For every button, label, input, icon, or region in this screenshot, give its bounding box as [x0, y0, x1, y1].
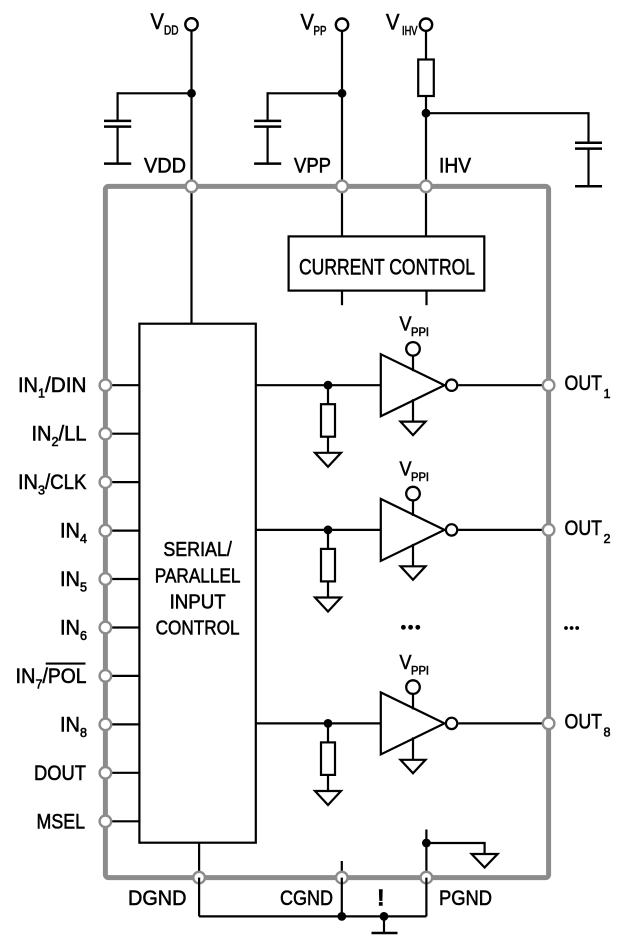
svg-text:IN: IN — [60, 713, 80, 736]
wire PGND branch to ground — [426, 843, 484, 854]
capacitor C1 (VDD decoupling) — [104, 121, 131, 127]
wire current-control output stub 2 — [425, 291, 427, 306]
ground external bar — [372, 932, 398, 935]
terminal pin IN2/LL — [100, 428, 112, 440]
wire DGND external down — [198, 878, 200, 917]
label pin IN6 — [60, 617, 87, 644]
op-amp driver A2 — [381, 499, 445, 561]
svg-text:V: V — [151, 9, 165, 34]
wire C1 top lead — [116, 92, 118, 120]
terminal OUT8 — [543, 718, 555, 730]
supply terminal V_PPI channel 1 — [406, 342, 420, 356]
svg-text:IN: IN — [16, 665, 36, 688]
terminal pin IN7/POL — [100, 670, 112, 682]
label SERIAL/PARALLEL INPUT CONTROL — [155, 539, 241, 640]
ellipsis outer outputs — [564, 626, 579, 630]
terminal OUT2 — [543, 524, 555, 536]
wire C2 bottom lead — [267, 127, 269, 164]
inverting bubble A1 — [446, 380, 457, 391]
ground PGND internal — [472, 854, 498, 868]
svg-text:7: 7 — [36, 677, 43, 691]
wire C1 bottom lead — [116, 127, 118, 164]
wire V_IHV to R1 — [425, 31, 427, 61]
node VPP-cap junction — [338, 89, 347, 98]
svg-text:IN: IN — [18, 374, 38, 397]
ground op-amp A1 — [401, 422, 426, 436]
ellipsis inner channels — [401, 625, 420, 630]
wire input-control block to DGND — [198, 843, 200, 878]
wire resistor R4 top lead — [327, 723, 329, 742]
wire V_PPI stub channel 3 — [412, 694, 414, 709]
terminal pin MSEL — [100, 816, 112, 828]
label OUT1 — [565, 372, 611, 401]
wire PGND internal — [425, 830, 427, 878]
label V_DD — [151, 9, 179, 38]
label OUT8 — [565, 710, 611, 739]
block U2 CURRENT CONTROL — [289, 236, 485, 290]
terminal pin VDD on boundary — [186, 181, 198, 193]
node channel 3 resistor tap — [324, 719, 333, 728]
wire pin DOUT stub — [105, 772, 139, 774]
ground op-amp A3 — [401, 760, 426, 774]
capacitor C2 (VPP decoupling) — [254, 121, 281, 127]
wire V_PPI stub channel 1 — [412, 356, 414, 371]
svg-text:8: 8 — [604, 725, 611, 739]
terminal OUT1 — [543, 379, 555, 391]
svg-text:PPI: PPI — [411, 665, 429, 677]
svg-text:IN: IN — [60, 568, 80, 591]
label V_PP — [301, 9, 327, 38]
svg-text:IN: IN — [60, 617, 80, 640]
IC boundary — [105, 186, 548, 877]
wire pin IN7/POL stub — [105, 675, 139, 677]
supply terminal VIHV (V_IHV) — [420, 19, 432, 31]
svg-text:DGND: DGND — [128, 887, 187, 910]
label V_IHV — [386, 9, 418, 38]
wire pin IN8 stub — [105, 723, 139, 725]
terminal PGND — [421, 872, 433, 884]
wire external ground bus — [199, 915, 426, 917]
wire channel 1 input — [256, 384, 382, 386]
svg-text:OUT: OUT — [565, 710, 603, 733]
svg-text:CGND: CGND — [280, 887, 333, 910]
wire to C1 — [118, 92, 192, 94]
wire resistor R3 bottom lead — [327, 581, 329, 597]
wire CGND internal stub — [341, 861, 343, 878]
wire pin IN2/LL stub — [105, 433, 139, 435]
wire pin MSEL stub — [105, 820, 139, 822]
label pin IN3/CLK — [18, 471, 87, 498]
label pin DOUT — [34, 762, 86, 785]
svg-text:INPUT: INPUT — [170, 592, 226, 614]
wire op-amp A1 ground stub — [412, 399, 414, 421]
ground external stem — [383, 916, 385, 933]
wire channel 1 output — [458, 384, 548, 386]
svg-text:IN: IN — [32, 423, 52, 446]
ground bar C1 — [104, 162, 131, 165]
svg-text:SERIAL/: SERIAL/ — [163, 539, 232, 561]
wire channel 2 output — [458, 529, 548, 531]
terminal pin DOUT — [100, 767, 112, 779]
wire resistor R2 top lead — [327, 385, 329, 404]
svg-text:DD: DD — [164, 24, 179, 38]
label OUT2 — [565, 517, 611, 546]
inverting bubble A3 — [446, 718, 457, 729]
wire R1 to IHV pin — [425, 96, 427, 186]
svg-text:8: 8 — [80, 726, 87, 740]
svg-text:3: 3 — [38, 484, 45, 498]
wire channel 3 output — [458, 722, 548, 724]
wire pin IN4 stub — [105, 529, 139, 531]
wire current-control output stub 1 — [341, 291, 343, 306]
svg-text:2: 2 — [604, 532, 611, 546]
svg-text:1: 1 — [604, 387, 611, 401]
node VDD-cap junction — [187, 89, 196, 98]
svg-text:CONTROL: CONTROL — [156, 618, 240, 640]
svg-text:PPI: PPI — [411, 472, 429, 484]
svg-text:PP: PP — [314, 24, 327, 38]
supply terminal VDD (V_DD) — [185, 18, 197, 30]
svg-text:CURRENT CONTROL: CURRENT CONTROL — [299, 255, 475, 280]
wire C2 top lead — [267, 92, 269, 120]
terminal pin IHV on boundary — [420, 181, 432, 193]
svg-text:!: ! — [377, 885, 385, 911]
label pin IN8 — [60, 713, 87, 740]
terminal pin IN3/CLK — [100, 476, 112, 488]
terminal pin IN6 — [100, 622, 112, 634]
ground bar C2 — [254, 162, 281, 165]
wire channel 2 input — [256, 529, 382, 531]
capacitor C3 (IHV reservoir) — [575, 143, 602, 149]
terminal pin IN1/DIN — [100, 379, 112, 391]
label pin IN7/POL — [16, 664, 87, 692]
ground channel 3 resistor — [315, 791, 341, 805]
terminal DGND — [193, 872, 205, 884]
label pin MSEL — [37, 810, 86, 833]
svg-text:PARALLEL: PARALLEL — [155, 566, 241, 588]
svg-text:2: 2 — [52, 435, 59, 449]
label V_PPI channel 2 — [400, 458, 430, 484]
op-amp driver A1 — [381, 354, 445, 416]
svg-text:/DIN: /DIN — [45, 374, 87, 397]
wire to C3 — [426, 113, 589, 142]
wire pin IN6 stub — [105, 626, 139, 628]
wire PGND external down — [425, 878, 427, 917]
svg-text:/POL: /POL — [43, 665, 87, 688]
svg-text:IHV: IHV — [439, 155, 471, 178]
wire C3 bottom lead — [587, 149, 589, 187]
block U1 SERIAL/PARALLEL INPUT CONTROL — [139, 324, 255, 843]
wire to C2 — [268, 92, 342, 94]
node CGND on ground bus — [337, 912, 346, 921]
label pin IN2/LL — [32, 423, 87, 450]
resistor R3 (pull-down) — [321, 549, 335, 582]
wire pin IN3/CLK stub — [105, 481, 139, 483]
node IHV-cap junction — [422, 109, 431, 118]
svg-text:DOUT: DOUT — [34, 762, 86, 785]
net VDD supply wire — [190, 31, 192, 187]
supply terminal V_PPI channel 2 — [406, 487, 420, 501]
wire channel 3 input — [256, 722, 382, 724]
svg-text:/LL: /LL — [59, 423, 87, 446]
wire VPP pin to current-control block — [341, 186, 343, 236]
svg-text:VPP: VPP — [294, 155, 331, 178]
inverting bubble A2 — [446, 524, 457, 535]
label pin IN4 — [60, 520, 87, 547]
svg-text:IHV: IHV — [402, 24, 418, 38]
label pin IN1/DIN — [18, 374, 87, 401]
svg-text:PPI: PPI — [411, 327, 429, 339]
terminal CGND — [336, 872, 348, 884]
label V_PPI channel 3 — [400, 652, 430, 678]
svg-text:V: V — [386, 9, 400, 34]
resistor R2 (pull-down) — [321, 404, 335, 437]
node channel 1 resistor tap — [324, 381, 333, 390]
ground bar C3 — [575, 185, 602, 188]
wire resistor R2 bottom lead — [327, 437, 329, 453]
svg-text:5: 5 — [80, 581, 87, 595]
svg-text:OUT: OUT — [565, 517, 603, 540]
node PGND ground branch — [422, 839, 431, 848]
resistor R4 (pull-down) — [321, 742, 335, 775]
wire IHV pin to current-control block — [425, 186, 427, 236]
terminal pin IN4 — [100, 525, 112, 537]
wire pin IN1/DIN stub — [105, 384, 139, 386]
node ground-symbol tap — [380, 912, 389, 921]
wire CGND external down — [341, 878, 343, 917]
wire resistor R4 bottom lead — [327, 775, 329, 791]
terminal pin IN5 — [100, 573, 112, 585]
wire VDD pin to input-control block — [190, 186, 192, 323]
wire V_PPI stub channel 2 — [412, 501, 414, 516]
svg-text:IN: IN — [18, 471, 38, 494]
svg-text:4: 4 — [80, 532, 87, 546]
svg-text:VDD: VDD — [144, 155, 186, 178]
svg-text:/CLK: /CLK — [45, 471, 87, 494]
terminal pin VPP on boundary — [336, 181, 348, 193]
svg-text:6: 6 — [80, 629, 87, 643]
wire resistor R3 top lead — [327, 530, 329, 549]
wire op-amp A3 ground stub — [412, 737, 414, 759]
ground channel 1 resistor — [315, 453, 341, 467]
svg-text:V: V — [301, 9, 315, 34]
svg-text:IN: IN — [60, 520, 80, 543]
supply terminal V_PPI channel 3 — [406, 680, 420, 694]
node channel 2 resistor tap — [324, 526, 333, 535]
op-amp driver A3 — [381, 692, 445, 754]
wire pin IN5 stub — [105, 578, 139, 580]
svg-text:MSEL: MSEL — [37, 810, 86, 833]
supply terminal VPP (V_PP) — [336, 19, 348, 31]
svg-text:OUT: OUT — [565, 372, 603, 395]
ground op-amp A2 — [401, 566, 426, 580]
terminal pin IN8 — [100, 719, 112, 731]
ground channel 2 resistor — [315, 598, 341, 612]
wire op-amp A2 ground stub — [412, 544, 414, 566]
resistor R1 (IHV series) — [418, 60, 434, 97]
svg-text:1: 1 — [38, 387, 45, 401]
label pin IN5 — [60, 568, 87, 595]
label V_PPI channel 1 — [400, 314, 430, 340]
net VPP supply wire — [341, 31, 343, 187]
svg-text:PGND: PGND — [439, 887, 492, 910]
